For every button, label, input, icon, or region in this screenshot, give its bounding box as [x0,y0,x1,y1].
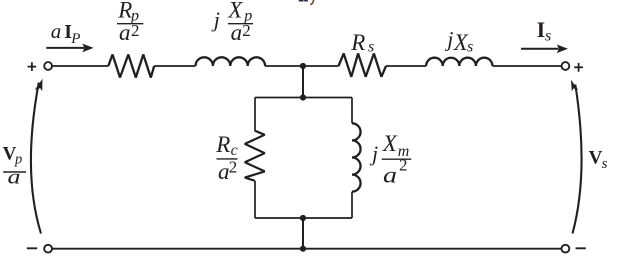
plus sign top-left [28,62,37,71]
wire Xp to node A [265,65,338,67]
wire between Rp and Xp [154,65,195,67]
label Vs [589,148,608,173]
svg-text:a: a [51,19,62,43]
junction dot bottom rail [300,246,306,252]
svg-text:R: R [350,30,365,55]
svg-text:s: s [368,39,374,56]
terminal bottom-left [44,245,52,253]
wire Xs to right terminal [493,65,562,67]
plus sign top-right [574,63,583,72]
terminal top-right [562,62,570,70]
svg-text:a: a [8,167,21,189]
wire bottom rail [52,248,561,250]
svg-text:2: 2 [399,156,408,175]
junction dot box top [300,94,306,100]
svg-text:j: j [369,141,378,166]
current arrow Is [521,45,568,54]
resistor Rp/a^2 [108,55,154,78]
wire shunt box top rail [255,97,352,99]
svg-text:2: 2 [229,158,238,177]
svg-text:j: j [444,26,453,51]
label Rp/a^2 fraction [117,0,143,45]
minus sign bottom-left [27,247,37,249]
wire Rs to Xs [386,65,426,67]
svg-text:s: s [602,156,608,172]
current arrow a Ip [46,44,93,53]
svg-text:X: X [382,131,398,156]
label j Xm/a^2 fraction [369,131,411,188]
svg-text:a: a [218,159,230,184]
svg-text:I: I [537,17,546,42]
wire vertical node A to shunt box top [302,66,304,98]
resistor Rc/a^2 [245,131,265,181]
label Vp/a fraction [3,143,26,188]
svg-text:P: P [70,31,80,47]
svg-text:c: c [231,142,238,159]
svg-text:p: p [14,151,22,167]
label Rs [350,30,374,56]
svg-text:s: s [467,39,473,56]
wire box right lower [351,192,353,218]
terminal bottom-right [562,245,570,253]
label jXs [444,26,473,55]
inductor Xm/a^2 [352,123,361,191]
svg-text:V: V [589,148,603,169]
junction dot box bottom [300,215,306,221]
cropped caption text top [299,0,314,5]
minus sign bottom-right [576,247,586,249]
label Rc/a^2 fraction [215,132,237,184]
wire box left lower [254,181,256,218]
svg-text:a: a [119,20,131,45]
resistor Rs [339,54,387,77]
svg-text:2: 2 [242,21,251,40]
inductor Xp/a^2 [196,57,266,66]
svg-text:j: j [211,7,220,32]
inductor Xs [426,58,492,66]
svg-text:2: 2 [131,21,140,40]
voltage arc Vs [571,80,582,234]
svg-text:a: a [231,20,243,45]
label j Xp/a^2 fraction [211,0,253,45]
svg-text:s: s [545,28,551,45]
wire top-left segment [52,65,108,67]
wire shunt box bottom rail [255,217,352,219]
label a Ip [51,19,81,47]
terminal top-left [44,62,52,70]
svg-text:R: R [215,132,230,157]
wire box left upper [254,98,256,131]
node A junction dot [300,63,306,69]
label Is [537,17,552,45]
wire shunt box bottom to bottom rail [302,218,304,249]
voltage arc Vp [31,79,43,234]
wire box right upper [351,98,353,124]
svg-text:a: a [383,162,397,187]
